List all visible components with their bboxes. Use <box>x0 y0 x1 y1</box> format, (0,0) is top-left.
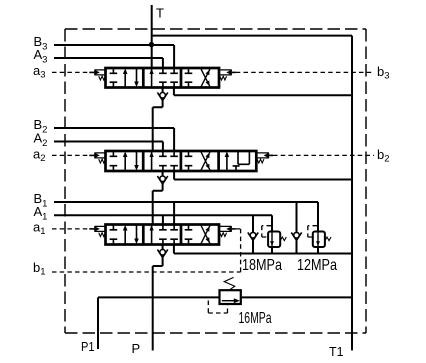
svg-text:12MPa: 12MPa <box>297 257 337 274</box>
relief valve RV1 18MPa <box>262 215 287 253</box>
valve V1 position 2 (centre) internals <box>150 225 178 245</box>
wire b3 pilot dashed <box>236 71 374 73</box>
wire V2 tank out <box>174 171 352 180</box>
valve V3 body <box>106 68 220 88</box>
wire V3 tank out <box>174 88 352 96</box>
svg-text:T1: T1 <box>329 344 344 359</box>
wire a2 pilot dashed <box>52 154 89 156</box>
actuator V3 right pilot <box>219 70 236 80</box>
valve V1 position 3 internals <box>185 225 211 245</box>
wire tank rail vertical <box>351 36 353 351</box>
wire B2 <box>54 128 174 151</box>
check valve CV4 anticavitation A1 <box>248 215 258 253</box>
valve V2 body <box>106 151 257 171</box>
valve V1 position 1 internals <box>110 225 139 245</box>
wire relief outlet to tank rail <box>241 296 352 298</box>
wire B3 <box>54 45 174 68</box>
actuator V2 right pilot <box>256 153 273 163</box>
check valve CV1 feed <box>157 245 167 267</box>
wire T inlet <box>151 5 153 68</box>
svg-text:T: T <box>156 6 164 21</box>
actuator V1 right pilot <box>219 226 236 236</box>
valve V2 position 4 (float) internals <box>225 151 250 171</box>
relief valve RV3 16MPa main <box>208 277 241 313</box>
svg-text:16MPa: 16MPa <box>239 310 272 327</box>
valve V3 position 3 internals <box>185 68 211 88</box>
svg-text:P: P <box>132 341 141 356</box>
wire B1 <box>54 202 318 225</box>
valve V1 body <box>106 225 220 245</box>
wire carryover V3 to V2 <box>153 107 163 151</box>
wire A1 <box>54 215 272 224</box>
enclosure dashed border <box>65 29 366 333</box>
actuator V3 left pilot <box>89 70 106 80</box>
check valve CV3 feed <box>157 88 167 108</box>
check valve CV5 anticavitation B1 <box>291 202 301 254</box>
valve V2 position 3 internals <box>185 151 211 171</box>
svg-text:18MPa: 18MPa <box>242 257 282 274</box>
wire P feed elbow <box>153 266 163 351</box>
valve V2 position 1 internals <box>110 151 139 171</box>
wire a1 pilot dashed <box>52 228 89 230</box>
check valve CV2 feed <box>157 171 167 191</box>
valve V3 position 1 internals <box>110 68 139 88</box>
wire P1 riser <box>97 297 99 349</box>
wire V1 tank out to gallery <box>174 245 352 254</box>
wire P supply line <box>98 296 220 298</box>
valve V3 position 2 (centre) internals <box>150 68 178 88</box>
wire A2 <box>54 142 163 152</box>
wire b2 pilot dashed <box>273 154 374 156</box>
actuator V2 left pilot <box>89 153 106 163</box>
valve V2 position 2 (centre) internals <box>150 151 178 171</box>
wire T to tank rail <box>152 35 352 37</box>
wire a3 pilot dashed <box>52 71 89 73</box>
wire b1 pilot dashed <box>52 229 241 272</box>
wire A3 <box>54 58 163 68</box>
svg-text:P1: P1 <box>81 339 95 354</box>
actuator V1 left pilot <box>89 226 106 236</box>
wire carryover V2 to V1 <box>153 191 163 225</box>
node junction B3/T <box>149 42 154 47</box>
relief valve RV2 12MPa <box>308 202 331 254</box>
